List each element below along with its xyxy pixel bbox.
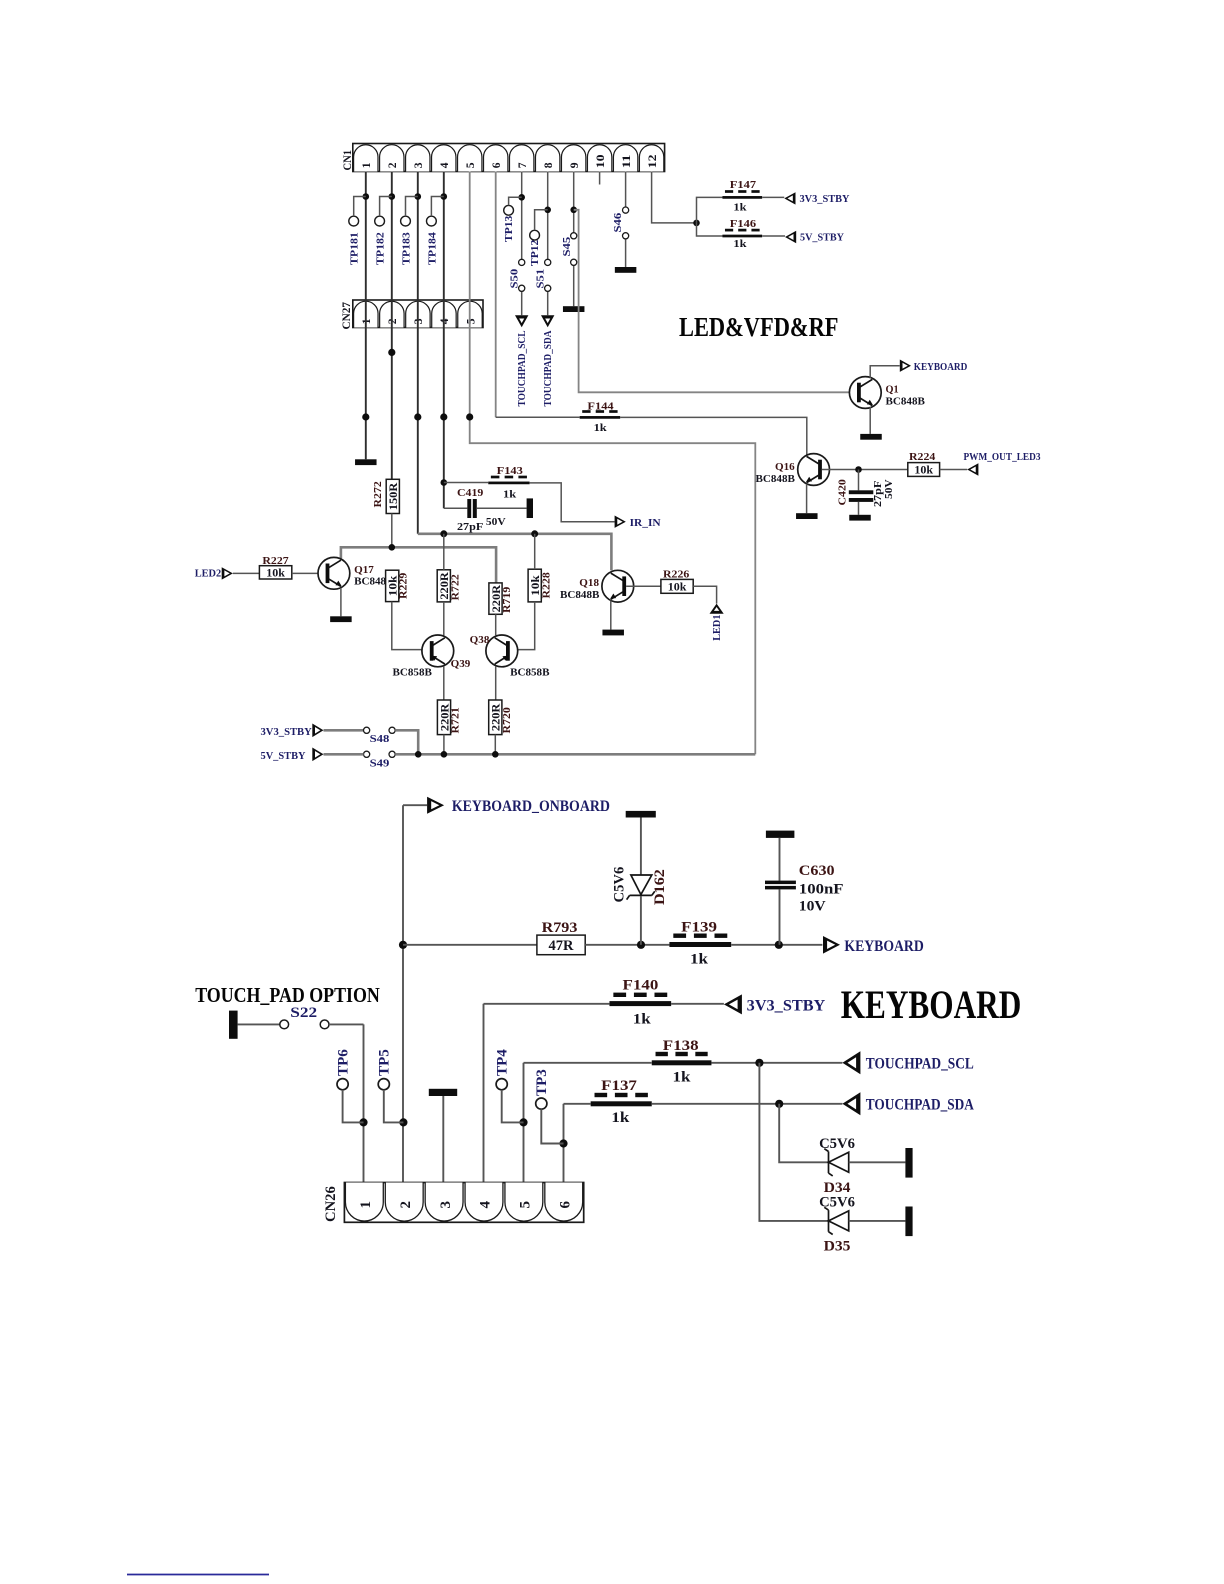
test point TP182 — [375, 197, 392, 266]
wire pin3 stub — [442, 1096, 444, 1183]
wire CN1 pin7 down — [521, 172, 523, 260]
switch S48 — [364, 727, 396, 745]
wire F139 to KEYBOARD port — [731, 944, 822, 946]
svg-text:27pF: 27pF — [457, 521, 484, 533]
svg-text:S50: S50 — [509, 268, 521, 288]
svg-text:1: 1 — [358, 1201, 374, 1209]
label TOUCHPAD_SCL bottom — [866, 1056, 974, 1073]
node IRbus/R722 — [440, 530, 447, 537]
title LED&VFD&RF — [679, 312, 839, 342]
wire Q17 emitter — [340, 588, 342, 616]
node pin3/TP183 — [415, 193, 422, 200]
svg-text:S48: S48 — [370, 733, 390, 745]
svg-text:Q38: Q38 — [470, 634, 490, 646]
svg-text:47R: 47R — [549, 938, 575, 954]
test point TP3 — [534, 1069, 564, 1143]
wire CN1 pin4 to C419 — [443, 172, 445, 509]
svg-text:1: 1 — [361, 162, 373, 168]
node D162 junction — [637, 941, 645, 949]
wire CN1 pin10 stub — [599, 172, 601, 185]
wire CN1 pin9 to GND — [573, 172, 575, 307]
zener diode D162 — [611, 811, 668, 945]
resistor R720 — [489, 700, 513, 735]
svg-text:F146: F146 — [730, 218, 757, 230]
connector CN26 — [323, 1183, 584, 1223]
label KEYBOARD net — [844, 938, 923, 955]
svg-text:KEYBOARD: KEYBOARD — [914, 361, 968, 373]
wire CN26 pin6 riser — [563, 1104, 565, 1183]
svg-text:C5V6: C5V6 — [611, 866, 627, 902]
title KEYBOARD — [841, 982, 1022, 1027]
test point TP5 — [376, 1049, 403, 1122]
node pin2/TP182 — [389, 193, 396, 200]
label 5V_STBY top — [800, 232, 844, 244]
svg-text:1k: 1k — [673, 1070, 692, 1086]
svg-text:3: 3 — [413, 318, 425, 324]
svg-text:12: 12 — [647, 154, 659, 168]
svg-text:C420: C420 — [837, 479, 849, 506]
svg-text:5V_STBY: 5V_STBY — [800, 232, 844, 244]
wire S22 to CN26 pin1 — [363, 1024, 365, 1182]
svg-text:BC848B: BC848B — [560, 589, 600, 601]
svg-text:1k: 1k — [503, 488, 517, 500]
wire CN1 pin6 to F144 — [495, 172, 497, 418]
svg-text:TP183: TP183 — [400, 232, 412, 265]
fuse F140 — [609, 978, 671, 1028]
svg-text:4: 4 — [439, 162, 451, 168]
svg-text:LED&VFD&RF: LED&VFD&RF — [679, 312, 839, 342]
svg-text:5: 5 — [518, 1201, 534, 1209]
wire R793 row left — [403, 944, 537, 946]
node IRbus/R228 — [531, 530, 538, 537]
svg-text:D35: D35 — [824, 1239, 851, 1255]
wire R224 to port — [940, 469, 968, 471]
wire R720 to 5V rail — [494, 735, 496, 755]
svg-text:10: 10 — [595, 154, 607, 168]
wire F144 row — [496, 417, 807, 455]
svg-text:R228: R228 — [540, 572, 552, 599]
resistor R228 — [528, 569, 552, 602]
svg-text:10k: 10k — [266, 565, 285, 579]
svg-text:LED1: LED1 — [711, 615, 723, 641]
label LED2 — [195, 567, 222, 579]
wire pin9 to Q1 base — [574, 210, 857, 392]
fuse F137 — [591, 1078, 652, 1126]
svg-text:F140: F140 — [623, 978, 659, 994]
wire F140 row — [484, 1003, 724, 1005]
label TOUCHPAD_SDA vertical — [542, 330, 554, 406]
ground pin11 — [615, 267, 637, 273]
svg-text:C630: C630 — [799, 863, 835, 879]
ground pin1 — [355, 459, 377, 465]
resistor R227 — [259, 555, 291, 579]
test point TP13 — [503, 197, 522, 242]
port PWM_OUT_LED3 — [967, 463, 978, 475]
svg-text:1k: 1k — [733, 202, 747, 214]
resistor R719 — [489, 583, 513, 614]
svg-text:TOUCH_PAD OPTION: TOUCH_PAD OPTION — [195, 983, 380, 1007]
wire CN26 pin4 riser — [483, 1004, 485, 1183]
wire SCL to D35 — [759, 1063, 828, 1221]
svg-text:F138: F138 — [663, 1038, 699, 1054]
svg-text:F139: F139 — [681, 920, 717, 936]
svg-text:LED2: LED2 — [195, 567, 222, 579]
svg-text:2: 2 — [398, 1201, 414, 1209]
wire KEYBOARD_ONBOARD riser — [402, 805, 404, 1182]
svg-text:F144: F144 — [587, 400, 614, 412]
resistor R721 — [437, 700, 461, 735]
resistor R272 — [372, 479, 400, 513]
test point TP183 — [400, 197, 417, 266]
wire S48 to 5V rail — [395, 730, 418, 754]
wire 3V3 to S48 — [324, 729, 364, 732]
terminator bar D34 — [905, 1148, 912, 1178]
svg-text:1: 1 — [361, 318, 373, 324]
fuse F139 — [669, 920, 731, 968]
label TOUCHPAD_SDA bottom — [866, 1097, 975, 1114]
svg-text:2: 2 — [387, 318, 399, 324]
svg-text:R227: R227 — [262, 555, 289, 567]
svg-text:50V: 50V — [486, 516, 506, 528]
svg-text:4: 4 — [439, 318, 451, 324]
node TP5/pin2 — [399, 1118, 407, 1126]
wire F138 row — [524, 1062, 843, 1064]
label TOUCHPAD_SCL vertical — [516, 331, 528, 407]
svg-text:R722: R722 — [449, 574, 461, 601]
test point TP184 — [426, 197, 443, 266]
svg-text:R229: R229 — [398, 572, 410, 599]
svg-text:S51: S51 — [535, 269, 547, 289]
node pin4/F143 — [441, 479, 448, 486]
svg-text:S45: S45 — [561, 236, 573, 256]
wire R719 to Q38 — [495, 614, 497, 635]
svg-text:TOUCHPAD_SDA: TOUCHPAD_SDA — [866, 1097, 975, 1114]
zener diode D34 — [819, 1136, 905, 1196]
svg-text:Q16: Q16 — [775, 461, 795, 473]
fuse F143 — [488, 465, 529, 500]
svg-text:BC848B: BC848B — [886, 396, 926, 408]
svg-text:5V_STBY: 5V_STBY — [261, 750, 306, 762]
svg-text:3V3_STBY: 3V3_STBY — [800, 193, 850, 205]
node pin2 below CN27 — [388, 349, 395, 356]
capacitor C420 — [837, 470, 896, 515]
resistor R226 — [661, 569, 693, 594]
title TOUCH_PAD OPTION — [195, 983, 380, 1007]
svg-text:9: 9 — [569, 162, 581, 168]
svg-text:5: 5 — [465, 318, 477, 324]
label LED1 vertical — [711, 615, 723, 641]
node R793 junction — [399, 941, 407, 949]
switch S49 — [364, 751, 396, 769]
svg-text:TP182: TP182 — [375, 232, 387, 265]
transistor Q18 — [560, 570, 634, 602]
port LED1 — [710, 604, 724, 614]
fuse F144 — [580, 400, 621, 434]
test point TP12 — [529, 210, 548, 266]
ground C420 — [849, 515, 871, 521]
svg-text:S22: S22 — [290, 1005, 317, 1021]
label 3V3_STBY top — [800, 193, 850, 205]
svg-text:1k: 1k — [733, 238, 747, 250]
svg-text:R721: R721 — [450, 707, 462, 733]
resistor R224 — [908, 451, 940, 477]
node C630 junction — [775, 941, 783, 949]
svg-text:CN1: CN1 — [342, 150, 354, 171]
wire junction to F147 row — [697, 197, 723, 223]
svg-text:TP6: TP6 — [335, 1049, 351, 1076]
port 3V3_STBY (top) — [784, 192, 795, 204]
wire R226 to LED1 — [693, 586, 716, 603]
svg-text:8: 8 — [543, 162, 555, 168]
port TOUCHPAD_SDA (pin8) — [541, 315, 554, 327]
svg-text:C419: C419 — [457, 487, 484, 499]
svg-text:Q39: Q39 — [451, 658, 471, 670]
wire pin7 switch to port — [521, 291, 523, 315]
node S48/5V — [415, 751, 422, 758]
switch S51 — [535, 259, 551, 291]
switch S45 — [561, 233, 577, 266]
svg-text:IR_IN: IR_IN — [630, 517, 661, 529]
node TP4/pin5 — [519, 1118, 527, 1126]
node pin9 branch — [570, 207, 577, 214]
label IR_IN — [630, 517, 661, 529]
svg-text:1k: 1k — [633, 1012, 652, 1028]
node R272/R229 — [389, 544, 396, 551]
wire Q1 collector to KEYBOARD — [870, 366, 900, 379]
wire LED2 to R227 — [233, 572, 260, 574]
svg-text:KEYBOARD_ONBOARD: KEYBOARD_ONBOARD — [452, 798, 610, 815]
wire Q16 emitter — [806, 484, 808, 513]
svg-text:10k: 10k — [914, 463, 933, 477]
node R720/5V — [492, 751, 499, 758]
port TOUCHPAD_SDA bottom — [842, 1092, 860, 1115]
svg-text:TOUCHPAD_SCL: TOUCHPAD_SCL — [866, 1056, 974, 1073]
svg-text:TP12: TP12 — [529, 239, 541, 266]
connector CN27 — [341, 300, 483, 330]
port TOUCHPAD_SCL bottom — [842, 1051, 860, 1074]
svg-text:TP3: TP3 — [534, 1069, 550, 1096]
wire CN1 pin8 down — [547, 172, 549, 260]
port 3V3_STBY bottom — [724, 994, 742, 1014]
wire R227 to Q17 base — [292, 572, 326, 574]
port LED2 — [222, 567, 233, 579]
switch S22 — [238, 1005, 364, 1029]
svg-text:R720: R720 — [501, 707, 513, 734]
wire Q39 to R721 — [443, 667, 445, 700]
svg-text:TOUCHPAD_SCL: TOUCHPAD_SCL — [516, 331, 528, 407]
svg-text:F147: F147 — [730, 179, 757, 191]
svg-text:5: 5 — [465, 162, 477, 168]
wire IRbus to R722 — [443, 534, 445, 570]
svg-text:4: 4 — [478, 1201, 494, 1209]
svg-text:6: 6 — [491, 162, 503, 168]
wire R722 to Q39 — [443, 602, 445, 635]
fuse F146 — [722, 218, 762, 250]
connector CN1 — [342, 144, 665, 172]
svg-text:BC858B: BC858B — [510, 666, 550, 678]
svg-text:R793: R793 — [542, 920, 578, 936]
wire F146 to port — [762, 235, 785, 237]
svg-text:CN26: CN26 — [323, 1186, 339, 1222]
transistor Q39 — [393, 635, 471, 678]
transistor Q17 — [318, 557, 394, 589]
node F146/F147 junction — [693, 220, 700, 227]
svg-text:R226: R226 — [663, 569, 690, 581]
svg-text:Q17: Q17 — [354, 564, 374, 576]
node R721/5V — [441, 751, 448, 758]
svg-text:50V: 50V — [883, 479, 895, 499]
port 5V_STBY rail — [312, 747, 323, 761]
ground Q17 — [330, 616, 352, 622]
svg-text:R719: R719 — [501, 586, 513, 613]
node TP3/pin6 — [559, 1139, 567, 1147]
wire 5V rail — [324, 753, 756, 756]
svg-text:3: 3 — [413, 162, 425, 168]
svg-text:100nF: 100nF — [799, 882, 844, 898]
terminator bar S22 — [229, 1011, 238, 1039]
svg-text:CN27: CN27 — [341, 302, 353, 330]
svg-text:150R: 150R — [388, 482, 400, 510]
svg-text:S49: S49 — [370, 758, 390, 770]
svg-text:D162: D162 — [652, 869, 668, 905]
footer underline — [127, 1574, 269, 1576]
port IR_IN — [615, 516, 626, 528]
wire IRbus to R228 — [534, 534, 536, 569]
wire F137 row — [564, 1103, 843, 1105]
svg-text:TP13: TP13 — [503, 215, 515, 242]
svg-text:3V3_STBY: 3V3_STBY — [747, 998, 826, 1015]
transistor Q38 — [470, 634, 550, 679]
svg-text:10k: 10k — [668, 579, 687, 593]
resistor R229 — [386, 570, 410, 601]
svg-text:R272: R272 — [372, 481, 384, 508]
wire CN26 pin5 riser — [523, 1063, 525, 1183]
port KEYBOARD_ONBOARD — [403, 797, 444, 814]
svg-text:TP184: TP184 — [426, 232, 438, 265]
svg-text:C5V6: C5V6 — [819, 1195, 855, 1211]
svg-text:BC858B: BC858B — [393, 666, 433, 678]
ground Q16 — [796, 513, 818, 519]
svg-text:TP181: TP181 — [349, 232, 361, 265]
svg-text:TP5: TP5 — [376, 1049, 392, 1076]
switch S46 — [612, 207, 629, 239]
fuse F147 — [722, 179, 762, 214]
label KEYBOARD top — [914, 361, 968, 373]
terminator bar CN26 pin3 — [429, 1089, 457, 1096]
wire Q16 base row — [822, 469, 908, 471]
svg-text:6: 6 — [557, 1201, 573, 1209]
node pin4/TP184 — [441, 193, 448, 200]
port 3V3_STBY rail — [312, 723, 323, 737]
svg-text:C5V6: C5V6 — [819, 1136, 855, 1152]
svg-text:F137: F137 — [601, 1078, 637, 1094]
node pin5 lower — [466, 413, 473, 420]
label 3V3_STBY rail — [261, 726, 312, 738]
wire IR bus — [418, 534, 612, 571]
svg-text:BC848B: BC848B — [756, 473, 796, 485]
svg-text:7: 7 — [517, 162, 529, 168]
node D35 branch — [755, 1059, 763, 1067]
zener diode D35 — [819, 1195, 905, 1255]
svg-text:S46: S46 — [612, 212, 624, 232]
wire F143 row — [444, 483, 615, 522]
node D34 branch — [775, 1100, 783, 1108]
svg-text:Q18: Q18 — [579, 577, 599, 589]
svg-text:PWM_OUT_LED3: PWM_OUT_LED3 — [964, 451, 1041, 463]
svg-text:Q1: Q1 — [886, 383, 899, 395]
node pin4 lower — [440, 413, 447, 420]
wire CN1 pin11 to S46 — [625, 172, 627, 268]
svg-text:3V3_STBY: 3V3_STBY — [261, 726, 312, 738]
port 5V_STBY (top) — [785, 231, 796, 243]
wire CN1 pin5 run to 5V rail — [470, 172, 756, 755]
svg-text:1k: 1k — [611, 1110, 630, 1126]
label 5V_STBY rail — [261, 750, 306, 762]
wire F147 to port — [762, 196, 784, 198]
transistor Q1 — [849, 377, 925, 409]
svg-text:F143: F143 — [497, 465, 524, 477]
label PWM_OUT_LED3 — [964, 451, 1041, 463]
label 3V3_STBY bottom — [747, 998, 826, 1015]
resistor R722 — [437, 570, 461, 602]
terminator bar C419 — [527, 498, 533, 518]
node TP6/pin1 — [359, 1118, 367, 1126]
wire Q17 collector bus — [341, 547, 496, 583]
wire R721 to 5V rail — [443, 735, 445, 755]
wire CN1 pin1 to GND — [365, 172, 367, 460]
svg-text:TP4: TP4 — [494, 1049, 510, 1076]
wire Q18 emitter — [610, 601, 612, 630]
svg-text:KEYBOARD: KEYBOARD — [841, 982, 1022, 1027]
fuse F138 — [652, 1038, 712, 1086]
switch S50 — [509, 259, 525, 291]
wire Q18 base to R226 — [626, 585, 661, 587]
wire Q38 to R720 — [495, 667, 497, 700]
svg-text:1k: 1k — [690, 952, 709, 968]
svg-text:2: 2 — [387, 162, 399, 168]
test point TP6 — [335, 1049, 363, 1123]
wire junction to F146 row — [697, 223, 723, 236]
terminator bar D35 — [905, 1207, 912, 1237]
port KEYBOARD bottom — [823, 936, 840, 954]
transistor Q16 — [756, 454, 830, 486]
wire pin8 switch to port — [547, 291, 549, 315]
svg-text:3: 3 — [438, 1201, 454, 1209]
wire CN1 pin12 to junction — [652, 172, 697, 223]
ground pin9 — [563, 306, 585, 312]
wire CN1 pin3 to IR bus — [417, 172, 419, 534]
wire Q1 emitter — [869, 407, 871, 434]
port TOUCHPAD_SCL (pin7) — [515, 315, 528, 327]
svg-text:R224: R224 — [909, 451, 936, 463]
wire R228 to Q38 base — [510, 602, 535, 650]
capacitor C630 — [765, 831, 844, 945]
resistor R793 — [537, 920, 585, 955]
test point TP181 — [349, 197, 366, 266]
ground Q1 — [860, 434, 882, 440]
node pin8/TP12 — [544, 207, 551, 214]
wire R793 to F139 — [585, 944, 669, 946]
test point TP4 — [494, 1049, 523, 1123]
ground Q18 — [602, 630, 624, 636]
node pin3 lower — [414, 413, 421, 420]
svg-text:1k: 1k — [594, 422, 608, 434]
wire CN1 pin2 to R272 — [391, 172, 393, 480]
capacitor C419 — [444, 487, 527, 533]
label KEYBOARD_ONBOARD — [452, 798, 610, 815]
wire R229 to Q39 base — [392, 602, 430, 650]
wire SDA to D34 — [779, 1104, 828, 1163]
